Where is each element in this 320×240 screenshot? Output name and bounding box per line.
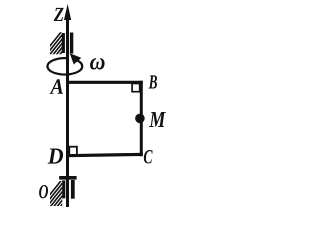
ground: lower bearing cap	[59, 176, 76, 180]
node Z label	[54, 8, 64, 21]
wire: bottom bar D-C	[66, 154, 143, 155]
ground: upper bearing right bar	[70, 33, 73, 54]
wire: right side B-C	[140, 81, 143, 157]
node O label	[39, 185, 48, 198]
node B label	[149, 75, 157, 88]
node M label	[149, 112, 166, 127]
node right-angle square at D	[69, 147, 77, 156]
wire: top bar A-B	[66, 81, 143, 84]
node right-angle square at B	[132, 84, 140, 92]
ground: lower bearing left bar	[62, 180, 65, 198]
node M point dot	[135, 114, 145, 124]
ground: upper bearing left bar	[62, 33, 65, 53]
wire: rotation ellipse omega arc	[47, 58, 82, 74]
ground: lower bearing right bar	[71, 180, 75, 199]
wire: vertical shaft / axis Z through A and D	[66, 14, 69, 207]
ground: upper bearing hatching	[46, 29, 64, 76]
node C label	[144, 150, 153, 163]
node A label	[50, 79, 63, 94]
node omega arrowhead	[70, 53, 82, 64]
node Z axis arrowhead	[64, 4, 71, 20]
node D label	[48, 149, 63, 164]
ground: lower bearing hatching	[46, 178, 64, 225]
node omega label	[90, 58, 105, 69]
